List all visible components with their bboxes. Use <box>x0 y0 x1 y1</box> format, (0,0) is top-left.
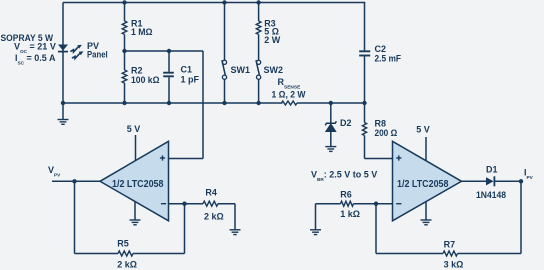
op-amp U2 + input marker <box>396 155 401 160</box>
svg-text:2 kΩ: 2 kΩ <box>117 260 137 270</box>
wire SW1 top lead <box>224 3 226 61</box>
wire R6 ground stub <box>315 204 317 230</box>
wire C2 top lead <box>364 3 366 51</box>
svg-text:5 V: 5 V <box>416 125 430 135</box>
wire amp1 output to V_PV <box>52 180 100 182</box>
resistor R4 <box>203 201 218 206</box>
wire amp2 output to D1 <box>462 180 487 182</box>
svg-text:R6: R6 <box>340 189 352 199</box>
svg-text:1N4148: 1N4148 <box>476 190 506 200</box>
wire SW1 bottom lead <box>224 79 226 103</box>
svg-text:R2: R2 <box>131 65 143 75</box>
wire amp1 5V supply <box>135 135 137 162</box>
wire amp2 5V supply <box>425 137 427 165</box>
resistor R5 <box>118 251 133 256</box>
wire ground rail right of Rsense <box>297 102 365 104</box>
wire R7 right lead <box>458 253 522 255</box>
ground (panel return) <box>58 120 69 125</box>
wire C1 top lead <box>168 51 170 72</box>
capacitor C2 <box>359 51 370 55</box>
wire SW2 bottom lead <box>258 79 260 103</box>
svg-text:D1: D1 <box>486 165 498 175</box>
svg-text:1 MΩ: 1 MΩ <box>131 27 153 37</box>
node I_PV <box>519 179 523 183</box>
op-amp U1 - input marker <box>161 203 166 205</box>
wire R8 top lead <box>364 103 366 123</box>
switch SW2 <box>256 60 261 79</box>
wire ground rail left of Rsense <box>63 102 283 104</box>
resistor R3 <box>256 21 261 34</box>
ground (D2) <box>325 147 336 152</box>
wire D2 bottom lead <box>330 131 332 147</box>
switch SW1 <box>222 60 227 79</box>
wire amp1 - input row <box>169 203 204 205</box>
svg-text:D2: D2 <box>340 118 352 128</box>
resistor R7 <box>443 251 458 256</box>
wire divider tap vertical to amp1 + <box>202 51 204 159</box>
svg-text:C2: C2 <box>375 44 387 54</box>
PV light arrow upper <box>70 45 82 52</box>
node divider / C1 <box>167 49 171 53</box>
wire amp2 - input row <box>354 203 393 205</box>
wire R5 left lead <box>75 253 119 255</box>
node ground rail / C1 <box>167 101 171 105</box>
zener diode D2 <box>325 121 336 131</box>
svg-text:1/2 LTC2058: 1/2 LTC2058 <box>397 179 449 190</box>
svg-text:200 Ω: 200 Ω <box>375 128 398 138</box>
wire R5 right lead <box>133 253 185 255</box>
node ground rail / SW1 <box>222 101 226 105</box>
wire amp2 + input row <box>365 158 393 160</box>
wire C1 bottom lead <box>168 77 170 103</box>
ground (amp2) <box>421 220 432 225</box>
wire amp1 + input row <box>169 158 204 160</box>
wire R3 to SW2 <box>258 34 260 60</box>
svg-text:2 kΩ: 2 kΩ <box>204 211 224 221</box>
svg-text:3 kΩ: 3 kΩ <box>444 260 464 270</box>
svg-text:R5: R5 <box>117 239 129 249</box>
op-amp U1 + input marker <box>160 155 165 160</box>
wire R4 ground stub <box>234 204 236 230</box>
node Rsense / C2 / R8 <box>362 101 366 105</box>
ground (amp1) <box>130 220 141 225</box>
node top rail / R1 <box>122 0 126 4</box>
wire R1 bottom lead <box>124 34 126 51</box>
node ground rail / D2 <box>329 101 333 105</box>
node ground rail / SW2 <box>256 101 260 105</box>
PV panel diode <box>58 45 68 52</box>
wire R1 top lead <box>124 3 126 22</box>
wire R8 bottom lead <box>364 136 366 159</box>
wire V_PV node vertical <box>74 181 76 253</box>
svg-text:5 V: 5 V <box>127 124 141 134</box>
wire D2 top lead <box>330 103 332 123</box>
svg-text:1 pF: 1 pF <box>181 75 200 85</box>
wire amp1 - node vertical <box>184 204 186 254</box>
op-amp U1 1/2 LTC2058 (points left) <box>100 141 169 221</box>
ground (R6) <box>310 230 321 235</box>
node R1/R2 divider <box>122 49 126 53</box>
svg-text:1 Ω, 2 W: 1 Ω, 2 W <box>272 90 306 100</box>
svg-text:C1: C1 <box>181 65 193 75</box>
svg-text:R4: R4 <box>205 188 217 198</box>
wire C2 bottom lead <box>364 56 366 103</box>
wire ground stub left <box>62 103 64 120</box>
wire R4 right lead <box>218 203 235 205</box>
wire divider tap row <box>125 50 204 52</box>
node ground rail / left rail <box>61 101 65 105</box>
wire R3 top lead <box>258 3 260 22</box>
svg-text:1 kΩ: 1 kΩ <box>340 209 360 219</box>
resistor R2 <box>122 70 127 83</box>
node amp2 inverting input <box>374 202 378 206</box>
wire R2 top lead <box>124 51 126 70</box>
svg-text:R8: R8 <box>375 119 387 129</box>
wire amp1 ground stub <box>134 201 136 220</box>
wire top rail <box>63 2 365 4</box>
svg-text:2 W: 2 W <box>264 35 281 45</box>
node top rail / SW1 <box>222 0 226 4</box>
svg-text:Panel: Panel <box>87 50 108 60</box>
svg-text:1/2 LTC2058: 1/2 LTC2058 <box>112 179 164 190</box>
PV light arrow lower <box>72 51 84 58</box>
node ground rail / R2 <box>122 101 126 105</box>
svg-text:2.5 mF: 2.5 mF <box>375 54 402 64</box>
svg-text:R7: R7 <box>444 239 456 249</box>
capacitor C1 <box>163 73 174 77</box>
resistor R6 <box>341 201 354 206</box>
wire D1 to I_PV node <box>494 180 521 182</box>
wire R7 left lead <box>376 253 443 255</box>
svg-text:SW1: SW1 <box>231 65 251 75</box>
wire R6 left lead <box>316 203 341 205</box>
ground (R4) <box>230 230 241 235</box>
node amp1 inverting input <box>182 202 186 206</box>
wire R2 bottom lead <box>124 83 126 103</box>
op-amp U2 - input marker <box>396 203 401 205</box>
diode D1 <box>486 176 494 186</box>
node top rail / R3 <box>256 0 260 4</box>
wire amp2 ground stub <box>425 200 427 220</box>
wire amp2 - node vertical <box>375 204 377 254</box>
svg-text:100 kΩ: 100 kΩ <box>131 75 160 85</box>
op-amp U2 1/2 LTC2058 (points right) <box>393 141 462 221</box>
resistor R8 <box>362 123 366 136</box>
node V_PV <box>72 179 76 183</box>
resistor RSENSE <box>282 101 298 105</box>
wire I_PV node vertical <box>520 181 522 253</box>
wire left rail (panel +) vertical <box>62 3 64 104</box>
resistor R1 <box>122 21 127 34</box>
svg-text:SW2: SW2 <box>264 65 284 75</box>
